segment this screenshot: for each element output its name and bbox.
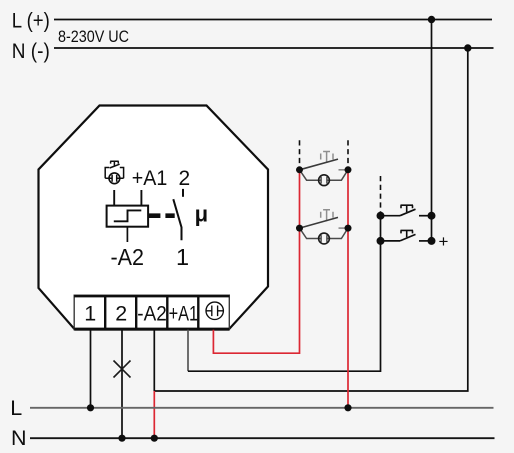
wired illuminated button S1 <box>296 152 352 186</box>
net L(+) top rail label <box>12 10 50 33</box>
red wire wired buttons to L bottom rail <box>347 170 349 408</box>
pushbutton T1 (up) <box>377 205 436 220</box>
relay coil K1 <box>107 206 149 227</box>
label + at direction buttons <box>439 232 449 251</box>
terminal label 1 <box>84 302 96 326</box>
junction dot red wire on L rail <box>344 404 351 411</box>
svg-text:μ: μ <box>195 202 208 227</box>
junction dot on L(+) rail <box>428 16 435 23</box>
svg-text:N (-): N (-) <box>12 40 50 63</box>
local button icon inside device <box>105 161 123 184</box>
value label 8-230V UC <box>58 27 129 46</box>
coil terminal label +A1 <box>132 167 168 190</box>
terminal label +A1 <box>169 302 199 326</box>
svg-text:L (+): L (+) <box>12 10 50 33</box>
wire between direction buttons <box>380 216 382 241</box>
svg-text:N: N <box>11 426 27 450</box>
svg-text:+A1: +A1 <box>169 302 199 326</box>
wire terminal +A1 down <box>187 330 189 372</box>
coil terminal label -A2 <box>111 244 145 270</box>
svg-text:+A1: +A1 <box>132 167 168 190</box>
svg-text:1: 1 <box>176 244 189 270</box>
switch contact blade <box>173 199 181 240</box>
svg-text:2: 2 <box>179 167 191 190</box>
svg-text:2: 2 <box>115 302 127 326</box>
wire from N(-) rail down and left to terminal -A2 <box>154 48 468 391</box>
terminal strip <box>74 295 229 330</box>
terminal label -A2 <box>137 302 167 326</box>
X mark on wire 2 <box>114 361 131 378</box>
junction dot wire2 on N rail <box>118 435 125 442</box>
switch contact fixed terminal 2 <box>182 189 184 197</box>
svg-text:L: L <box>10 396 22 420</box>
wire terminal -A2 down <box>153 330 155 391</box>
junction dot wire1 on L rail <box>87 404 94 411</box>
wire +A1 to pushbutton pair <box>188 241 381 371</box>
terminal antenna/button symbol <box>206 302 224 319</box>
wired illuminated button S2 <box>296 210 352 244</box>
label mu <box>195 202 208 227</box>
net L bottom rail wire <box>30 407 494 409</box>
svg-text:-A2: -A2 <box>111 244 145 270</box>
svg-text:-A2: -A2 <box>137 302 167 326</box>
red wire antenna terminal to wired buttons <box>213 170 299 353</box>
net N(-) top rail wire <box>54 47 494 49</box>
svg-text:+: + <box>439 232 449 251</box>
actuation link (dashed) coil to contact <box>148 213 174 218</box>
wire terminal 2 to N bottom rail <box>121 330 123 439</box>
net N(-) top rail label <box>12 40 50 63</box>
dashed wire above direction buttons <box>380 176 382 216</box>
junction dot on N(-) rail <box>464 44 471 51</box>
coil lead -A2 <box>126 227 128 242</box>
svg-text:1: 1 <box>84 302 96 326</box>
device body octagon <box>39 106 269 330</box>
svg-text:8-230V UC: 8-230V UC <box>58 27 129 46</box>
coil lead from icon <box>113 190 115 206</box>
red wire -A2 junction to N bottom rail <box>153 391 155 438</box>
coil lead +A1 <box>140 190 142 206</box>
terminal label 2 <box>115 302 127 326</box>
net L bottom rail label <box>10 396 22 420</box>
contact terminal label 1 <box>176 244 189 270</box>
contact terminal label 2 <box>179 167 191 190</box>
wire from L(+) rail down to pushbutton pair <box>431 20 433 241</box>
dashed wire above wired button left <box>299 140 301 170</box>
net N bottom rail wire <box>30 437 495 439</box>
net N bottom rail label <box>11 426 27 450</box>
dashed wire above wired button right <box>347 140 349 170</box>
wire terminal 1 to L bottom rail <box>90 330 92 408</box>
pushbutton T2 (down) <box>377 230 436 245</box>
junction dot red -A2 wire on N rail <box>151 435 158 442</box>
net L(+) top rail wire <box>54 19 492 21</box>
